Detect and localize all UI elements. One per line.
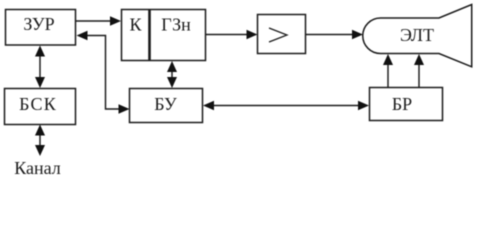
- svg-text:БР: БР: [392, 94, 412, 114]
- svg-text:ГЗн: ГЗн: [161, 15, 191, 35]
- svg-text:БУ: БУ: [154, 94, 177, 114]
- svg-text:БСК: БСК: [19, 94, 57, 114]
- svg-text:К: К: [129, 15, 142, 35]
- svg-text:ЭЛТ: ЭЛТ: [400, 25, 434, 45]
- svg-text:ЗУР: ЗУР: [23, 14, 54, 34]
- svg-text:Канал: Канал: [14, 158, 61, 178]
